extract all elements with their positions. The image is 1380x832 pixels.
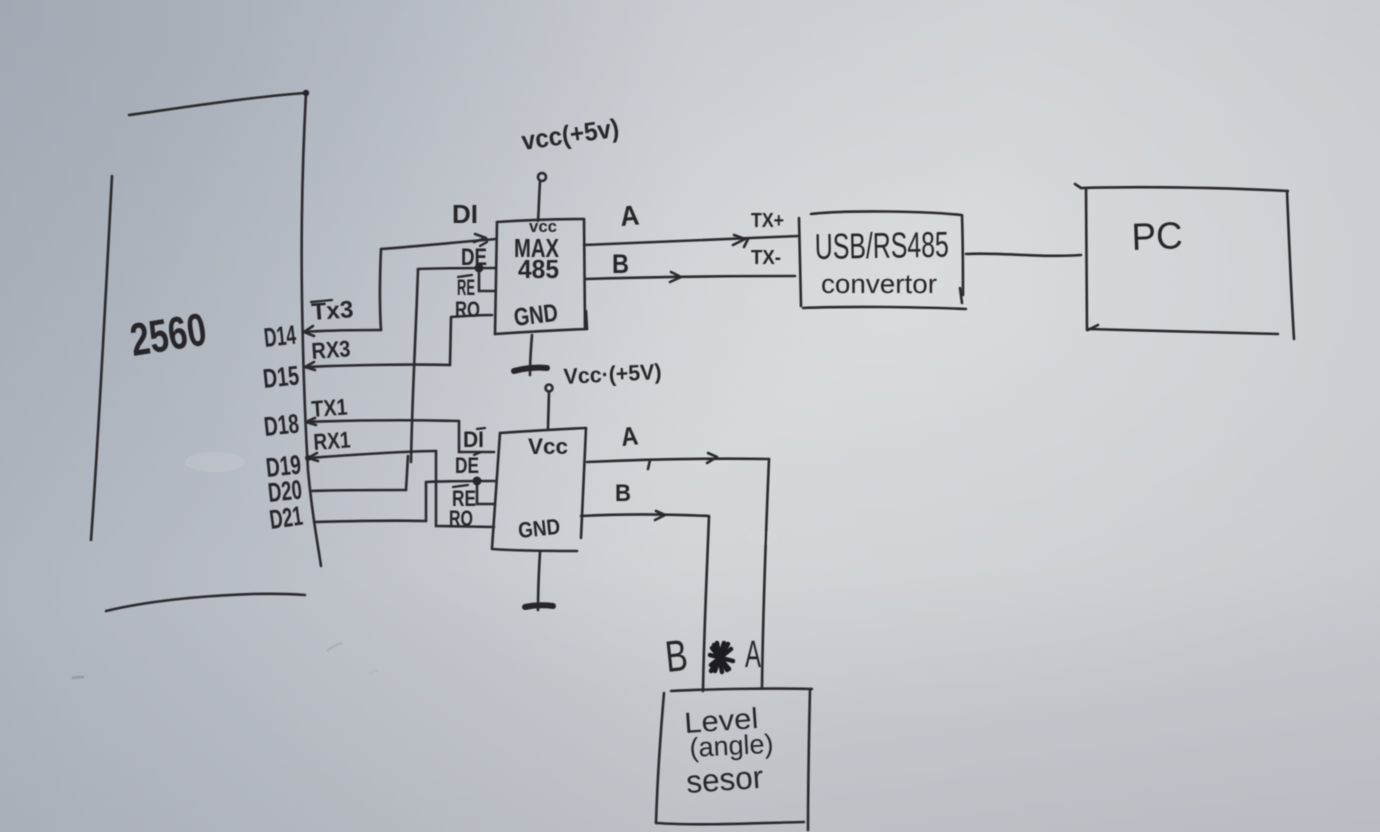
svg-text:RO: RO — [455, 297, 480, 322]
svg-text:TX1: TX1 — [311, 394, 349, 422]
svg-text:D14: D14 — [262, 320, 297, 353]
svg-text:GND: GND — [512, 299, 559, 332]
svg-text:GND: GND — [517, 514, 561, 543]
svg-text:USB/RS485: USB/RS485 — [814, 224, 949, 267]
svg-text:B: B — [615, 480, 631, 507]
svg-text:D21: D21 — [268, 501, 305, 535]
svg-text:sesor: sesor — [685, 759, 765, 800]
svg-text:D15: D15 — [261, 360, 300, 394]
svg-text:TX-: TX- — [751, 247, 781, 269]
svg-text:DI: DI — [463, 427, 484, 452]
svg-text:A: A — [619, 420, 639, 452]
svg-text:RO: RO — [449, 506, 473, 531]
svg-text:Vcc·(+5V): Vcc·(+5V) — [563, 359, 662, 389]
svg-text:DI: DI — [452, 199, 478, 229]
svg-text:Vcc: Vcc — [528, 434, 568, 459]
svg-text:convertor: convertor — [821, 269, 937, 299]
svg-text:A: A — [745, 634, 761, 676]
svg-text:485: 485 — [518, 254, 559, 284]
svg-text:B: B — [612, 249, 629, 279]
svg-text:D18: D18 — [262, 408, 300, 441]
svg-text:TX+: TX+ — [751, 210, 784, 232]
svg-text:DE: DE — [461, 244, 487, 271]
svg-text:PC: PC — [1131, 215, 1183, 259]
svg-text:DE: DE — [455, 453, 479, 478]
svg-text:A: A — [619, 199, 641, 232]
svg-text:RX3: RX3 — [311, 335, 352, 364]
svg-text:RX1: RX1 — [313, 426, 352, 455]
